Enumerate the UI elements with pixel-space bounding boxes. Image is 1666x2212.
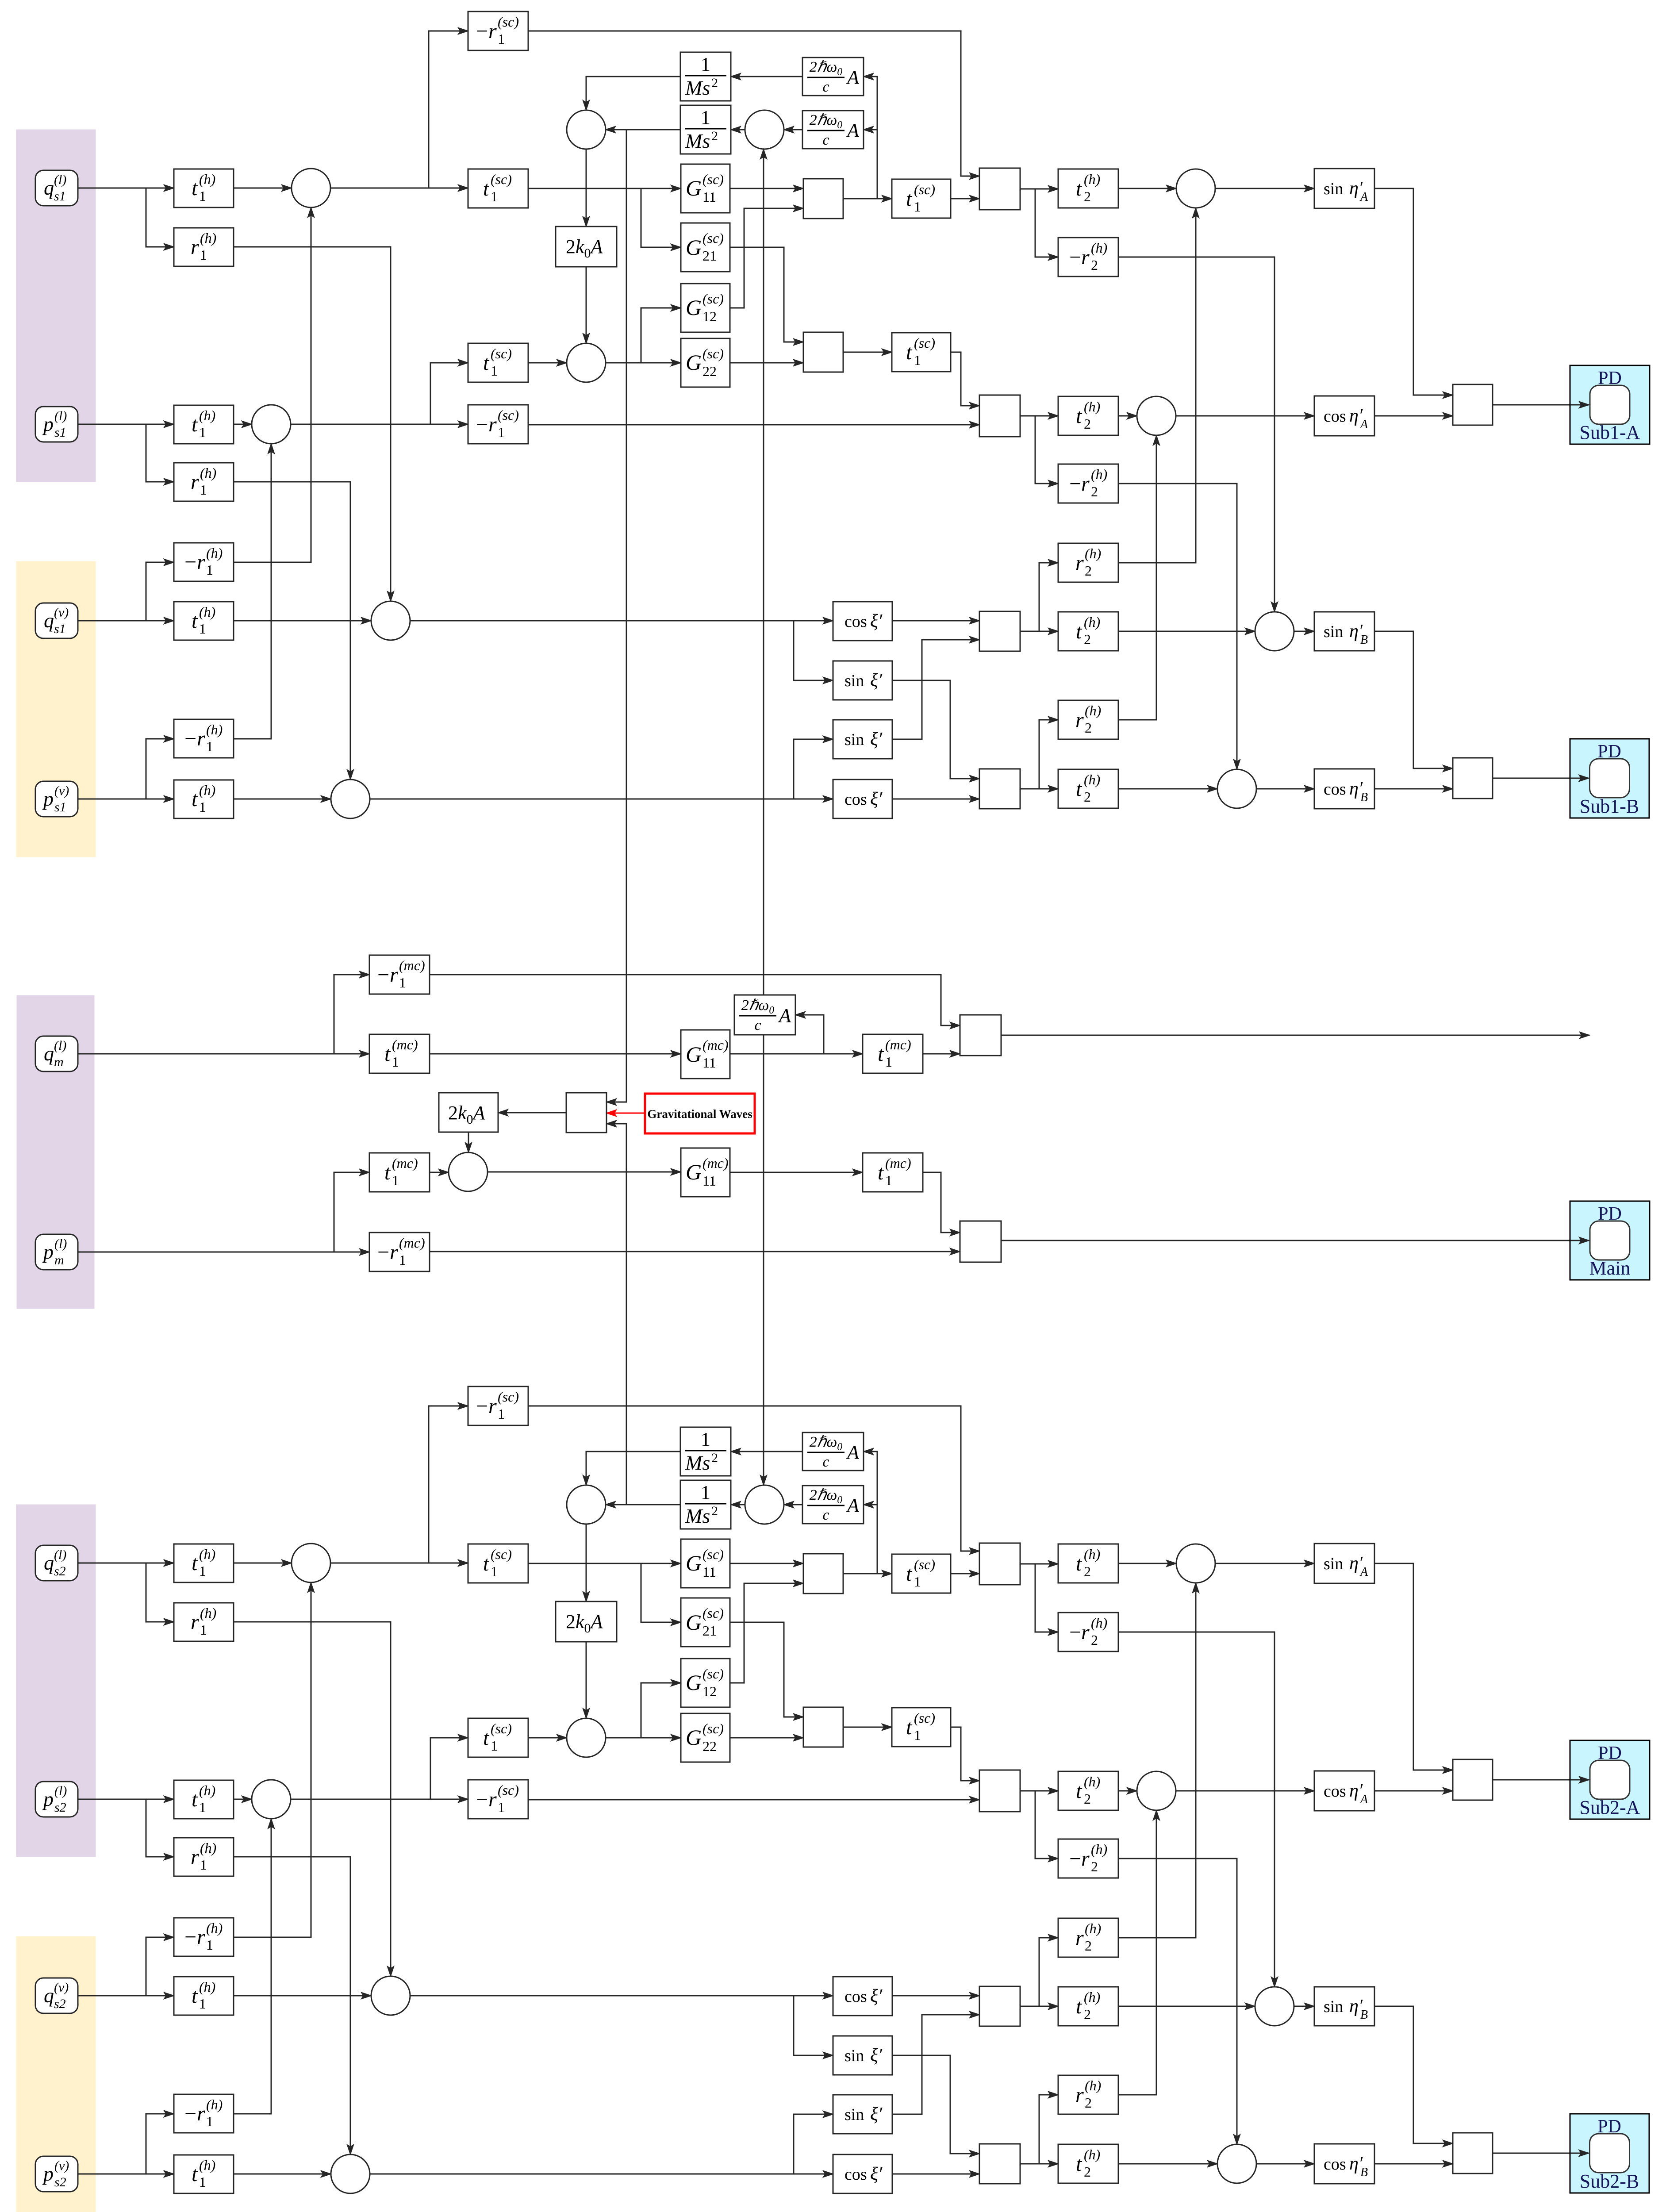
svg-text:(h): (h) (206, 2097, 223, 2112)
block -r1mc p (369, 1233, 430, 1271)
block -r1h s2 pv (174, 2094, 234, 2133)
block 2hw0cA s1 1 (802, 58, 864, 96)
wire s1 branch up to r2h r2 (1039, 720, 1058, 789)
wire s1 q(l) branch to r1h (146, 188, 174, 247)
block sin etaA s2 (1314, 1544, 1374, 1583)
wire s1 cos xi1 to Bsin sq (892, 620, 979, 622)
svg-text:2: 2 (1091, 1632, 1098, 1648)
wire s2 sin xi1 down to Bcos sq (892, 2055, 979, 2154)
svg-text:A: A (846, 66, 860, 88)
wire s1 q(v) input to t1h (78, 620, 174, 622)
svg-text:r: r (488, 413, 497, 436)
svg-text:t: t (483, 1726, 490, 1750)
svg-text:(sc): (sc) (702, 171, 724, 187)
sum s1 cosB (1217, 769, 1256, 808)
svg-text:B: B (1360, 791, 1368, 804)
svg-text:1: 1 (498, 1799, 505, 1815)
svg-text:(v): (v) (54, 1980, 69, 1995)
photodetector PD Sub2-A (1570, 1740, 1650, 1819)
wire G11mc to t1mc stage2 (730, 1053, 863, 1055)
sum s1 qv (371, 601, 410, 640)
svg-text:A: A (846, 1441, 860, 1463)
input p_s1^(v) (35, 781, 78, 817)
svg-text:t: t (906, 187, 913, 211)
svg-text:t: t (192, 2162, 198, 2186)
wire s1 p(v) input to t1h (78, 799, 174, 800)
svg-text:m: m (54, 1253, 64, 1267)
block -r2h s2 r2 (1058, 1839, 1118, 1878)
wire s1 sum sinA to box (1215, 188, 1314, 189)
wire s1 q(l) input to t1h (78, 188, 174, 189)
svg-text:Ms: Ms (685, 130, 710, 152)
wire s1 branch to G21 (641, 188, 681, 247)
wire s2 cosA to final A (1374, 1790, 1453, 1792)
svg-text:−: − (377, 963, 389, 987)
wire tap up to 2hw0cA mid (795, 1015, 824, 1054)
svg-text:G: G (686, 1160, 702, 1184)
svg-text:1: 1 (199, 1563, 206, 1579)
svg-text:(mc): (mc) (399, 957, 425, 973)
block -r2h s1 r2 (1058, 464, 1118, 503)
wire s2 branch up to -r1sc top (429, 1406, 468, 1563)
svg-text:2: 2 (711, 76, 718, 90)
wire s1 sum cosB to box (1256, 788, 1314, 790)
block 2hw0cA s2 2 (802, 1486, 864, 1524)
block r2h s1 r2 (1058, 700, 1118, 739)
svg-text:1: 1 (392, 1054, 399, 1070)
band vacuum inputs s2(v) (16, 1936, 96, 2212)
input p_s2^(v) (35, 2156, 78, 2192)
svg-text:(h): (h) (1091, 466, 1107, 482)
sum s2 mid1 (567, 1485, 606, 1524)
wire s1 r1h p down to pv sum (234, 482, 350, 780)
svg-text:t: t (1076, 1552, 1083, 1575)
wire t1mc to G11mc (430, 1053, 681, 1055)
svg-text:p: p (42, 1788, 54, 1810)
svg-text:t: t (192, 1551, 198, 1575)
svg-text:(h): (h) (1085, 703, 1101, 718)
svg-text:r: r (1081, 472, 1090, 495)
block t2h s1 B2 (1058, 769, 1118, 808)
wire s1 -r2h r1 down to sum sinB (1118, 257, 1274, 612)
block r1h s2 p (174, 1838, 234, 1876)
svg-text:r: r (191, 235, 199, 259)
wire s1 sinA down to final A (1374, 188, 1453, 395)
svg-text:A: A (1359, 1565, 1368, 1579)
sum main p (449, 1152, 488, 1191)
svg-text:G: G (686, 176, 702, 200)
svg-text:(h): (h) (1084, 399, 1100, 415)
svg-text:Sub1-B: Sub1-B (1580, 795, 1639, 817)
svg-text:cos: cos (1324, 1782, 1346, 1801)
svg-text:r: r (1075, 708, 1084, 732)
wire s2 right sum to 1/Ms2 2 (731, 1504, 745, 1505)
svg-text:p: p (42, 413, 54, 435)
svg-text:2: 2 (1085, 2095, 1092, 2111)
sum s1 sinA (1176, 169, 1215, 208)
svg-text:1: 1 (701, 54, 710, 75)
wire s1 sq2 r2 to t2h A2 (1020, 415, 1058, 417)
svg-text:(h): (h) (200, 1840, 216, 1856)
svg-text:G: G (686, 1042, 702, 1067)
photodetector PD Sub2-B (1570, 2114, 1649, 2193)
wire s1 sum cosA to box (1176, 415, 1314, 417)
svg-text:t: t (1076, 777, 1083, 801)
square stage2 s2 B1 (979, 1986, 1020, 2026)
wire s2 G21 down to comb2 (730, 1622, 803, 1717)
wire s2 G22 to comb2 (730, 1737, 803, 1739)
svg-text:1: 1 (701, 1482, 710, 1503)
wire s2 qv sum to cos xi1 (410, 1995, 833, 1997)
block t1h s1 qv (174, 602, 234, 640)
svg-text:cos: cos (845, 612, 867, 631)
block -r1sc bot s2 (468, 1780, 528, 1819)
block G21sc s1 (681, 223, 730, 272)
square comb2 s2 (803, 1707, 843, 1747)
wire s1 t1h q out to sum (234, 188, 292, 189)
wire s2 t1sc2 r2 down to sq2 row2 (951, 1727, 979, 1781)
svg-text:(h): (h) (199, 171, 215, 187)
wire s2 p(v) input to t1h (78, 2174, 174, 2175)
svg-text:−: − (1069, 472, 1081, 495)
block t2h s2 A1 (1058, 1544, 1118, 1583)
svg-text:r: r (191, 1845, 199, 1869)
svg-text:sin: sin (845, 730, 864, 749)
svg-text:s1: s1 (54, 800, 66, 814)
svg-text:−: − (1069, 246, 1081, 269)
wire s2 Bcos sq to t2h B2 (1020, 2163, 1058, 2165)
wire s2 comb2 out to t1sc stage2 row2 (843, 1727, 892, 1728)
band vacuum inputs s1(v) (16, 561, 96, 857)
svg-text:sin: sin (1324, 622, 1343, 641)
svg-text:11: 11 (702, 1173, 716, 1189)
wire s2 r2h r2 up to sum cosA (1118, 1810, 1156, 2095)
svg-text:c: c (822, 132, 829, 148)
block t2h s1 A1 (1058, 169, 1118, 208)
svg-text:c: c (822, 1454, 829, 1470)
label gravitational waves (645, 1094, 755, 1133)
svg-text:A: A (1359, 190, 1368, 204)
svg-text:cos: cos (845, 790, 867, 809)
wire s2 p(l) branch to r1h (146, 1799, 174, 1857)
wire s1 p(l) branch to r1h (146, 424, 174, 482)
svg-text:(h): (h) (206, 545, 223, 561)
square final s1 B (1453, 758, 1493, 799)
svg-text:21: 21 (702, 248, 717, 264)
sum s2 sinB (1255, 1987, 1294, 2026)
svg-text:1: 1 (885, 1054, 892, 1070)
block G22sc s2 (681, 1713, 730, 1762)
svg-text:G: G (686, 1610, 702, 1635)
wire s2 final B to PD (1493, 2153, 1571, 2154)
svg-text:2: 2 (1084, 416, 1091, 432)
wire s2 p sum out to -r1sc (291, 1799, 468, 1800)
svg-text:1: 1 (206, 2113, 213, 2129)
svg-text:ξ′: ξ′ (870, 2164, 883, 2184)
wire s1 final B to PD (1493, 778, 1571, 779)
wire s2 q(v) input to t1h (78, 1995, 174, 1997)
wire s1 t2h B1 to sum sinB (1118, 631, 1255, 632)
wire s2 1/Ms2 2 to mid sum (606, 1504, 680, 1505)
block -r2h s2 r1 (1058, 1613, 1118, 1651)
wire s1 G11 to comb1 (730, 188, 803, 189)
svg-text:r: r (1075, 1926, 1084, 1950)
svg-text:Sub2-B: Sub2-B (1580, 2170, 1639, 2192)
svg-text:t: t (878, 1042, 884, 1066)
input q_s2^(v) (35, 1978, 78, 2013)
block G21sc s2 (681, 1598, 730, 1647)
svg-text:ξ′: ξ′ (870, 2045, 883, 2066)
wire s2 tap up to 2hw0cA1 (864, 1452, 877, 1574)
wire s2 branch down to -r2h r2 (1035, 1791, 1058, 1859)
sum s1 right (745, 110, 784, 149)
block G12sc s1 (681, 284, 730, 332)
svg-text:−: − (476, 19, 488, 43)
wire s2 q(l) input to t1h (78, 1563, 174, 1564)
svg-text:1: 1 (206, 738, 213, 754)
block 2k0A s2 (556, 1601, 617, 1642)
svg-text:cos: cos (1324, 780, 1346, 799)
svg-text:1: 1 (491, 1563, 498, 1579)
svg-text:(h): (h) (1084, 1989, 1100, 2005)
block cosxi s2 2 (833, 2154, 892, 2193)
svg-text:1: 1 (199, 1996, 206, 2012)
wire s2 -r1sc top long to stage2 square (528, 1406, 979, 1551)
wire s1 r2h r1 up to sum sinA (1118, 208, 1196, 563)
svg-text:A: A (778, 1005, 791, 1026)
block t2h s1 B1 (1058, 612, 1118, 651)
square final s1 A (1453, 384, 1493, 425)
band laser input main (17, 995, 94, 1309)
svg-text:(h): (h) (1085, 1920, 1101, 1936)
svg-text:1: 1 (498, 424, 505, 440)
wire s2 -r1sc bot to sq2 row2 (528, 1799, 979, 1801)
svg-text:(h): (h) (1085, 545, 1101, 561)
svg-text:2: 2 (711, 1504, 718, 1518)
sum s1 mid1 (567, 110, 606, 149)
svg-text:G: G (686, 235, 702, 260)
svg-text:(sc): (sc) (702, 291, 724, 307)
square stage2 s1 B2 (979, 769, 1020, 809)
svg-text:t: t (1076, 620, 1083, 643)
wire s1 -r1sc top long to stage2 square (528, 31, 979, 176)
svg-text:(h): (h) (1084, 171, 1100, 187)
svg-text:s1: s1 (54, 189, 66, 204)
svg-text:t: t (1076, 177, 1083, 200)
wire s1 r1h q down to qv sum (234, 247, 391, 601)
svg-text:12: 12 (702, 1683, 717, 1699)
wire s2 r1h p down to pv sum (234, 1857, 350, 2154)
wire vline B up to top right sum (763, 149, 764, 995)
block G12sc s2 (681, 1659, 730, 1707)
svg-text:G: G (686, 1725, 702, 1750)
svg-text:Sub2-A: Sub2-A (1580, 1797, 1640, 1818)
wire s1 right sum to 1/Ms2 2 (731, 129, 745, 131)
wire s1 t1sc2 r1 to sq2 (951, 198, 979, 200)
wire s1 branch down to -r2h r1 (1035, 189, 1058, 257)
svg-text:t: t (483, 351, 490, 375)
wire s1 branch up to -r1sc top (429, 31, 468, 188)
svg-text:2: 2 (711, 1451, 718, 1465)
svg-text:r: r (197, 1925, 205, 1949)
svg-text:(sc): (sc) (914, 335, 935, 351)
svg-text:Sub1-A: Sub1-A (1580, 422, 1640, 443)
svg-text:B: B (1360, 633, 1368, 647)
wire s1 G21 down to comb2 (730, 247, 803, 342)
wire s2 branch up to r2h r1 (1039, 1938, 1058, 2006)
block 1/Ms2 s1 1 (680, 52, 731, 101)
svg-text:t: t (1076, 404, 1083, 428)
sum s1 q (292, 169, 330, 207)
wire s2 cosB to final B (1374, 2163, 1453, 2165)
wire s1 cos xi2 to Bcos sq (892, 799, 979, 800)
svg-text:1: 1 (914, 352, 921, 368)
wire s2 sum sinB to box (1294, 2006, 1314, 2007)
wire red gravitational waves (607, 1113, 645, 1114)
svg-text:m: m (54, 1055, 64, 1069)
svg-text:2: 2 (1091, 484, 1098, 499)
svg-text:2: 2 (1091, 257, 1098, 273)
svg-text:(sc): (sc) (498, 1389, 519, 1405)
svg-text:sin: sin (845, 672, 864, 690)
svg-text:(h): (h) (199, 782, 215, 798)
wire s1 p(v) branch to -r1h (146, 739, 174, 799)
svg-text:(sc): (sc) (702, 1720, 724, 1736)
svg-text:1: 1 (199, 2174, 206, 2190)
block 1/Ms2 s1 2 (680, 105, 731, 154)
block t2h s2 A2 (1058, 1771, 1118, 1810)
svg-text:22: 22 (702, 363, 717, 379)
sum s2 pv (331, 2154, 370, 2193)
svg-text:Ms: Ms (685, 77, 710, 99)
sum s1 sinB (1255, 612, 1294, 651)
wire s1 2k0A down to sum2 (586, 267, 587, 343)
svg-text:−: − (476, 413, 488, 436)
block 2hw0cA main (734, 995, 795, 1035)
block 1/Ms2 s2 1 (680, 1427, 731, 1476)
block r1h s1 q (174, 228, 234, 266)
block r1h s1 p (174, 463, 234, 501)
wire s1 sq2 r1 to t2h A1 (1020, 188, 1058, 190)
block cos etaB s1 (1314, 769, 1374, 809)
wire s2 branch down to -r2h r1 (1035, 1564, 1058, 1632)
svg-text:1: 1 (199, 799, 206, 815)
wire s2 -r1h qv up to q sum (234, 1582, 311, 1937)
svg-text:22: 22 (702, 1738, 717, 1754)
block t1h s2 q (174, 1544, 234, 1582)
block sinxi s1 1 (833, 661, 892, 700)
svg-text:1: 1 (491, 1738, 498, 1754)
svg-text:(l): (l) (54, 409, 67, 423)
block -r1h s1 pv (174, 719, 234, 758)
wire s2 q(l) branch to r1h (146, 1563, 174, 1622)
svg-text:Ms: Ms (685, 1505, 710, 1527)
svg-text:s2: s2 (54, 1564, 66, 1578)
svg-text:s2: s2 (54, 1800, 66, 1815)
input q_s2^(l) (35, 1545, 78, 1581)
block sin etaB s1 (1314, 612, 1374, 651)
wire s2 G11 to comb1 (730, 1563, 803, 1564)
block t1sc stage2 s1 r2 (892, 333, 951, 372)
band laser inputs s1(l) (16, 130, 96, 482)
wire sum to G11mc2 (488, 1171, 681, 1173)
svg-text:(sc): (sc) (702, 1546, 724, 1562)
block G11sc s2 (681, 1539, 730, 1588)
svg-text:cos: cos (1324, 2155, 1346, 2174)
square stage2 s2 B2 (979, 2144, 1020, 2184)
wire s2 2hw0cA2 to right sum (784, 1504, 802, 1505)
block t1h s2 qv (174, 1977, 234, 2015)
block 1/Ms2 s2 2 (680, 1480, 731, 1529)
svg-text:(h): (h) (1084, 1546, 1100, 1562)
block sinxi s1 2 (833, 720, 892, 759)
svg-text:(h): (h) (1091, 1841, 1107, 1857)
block t1h s2 p (174, 1780, 234, 1819)
svg-text:q: q (44, 1551, 54, 1574)
square comb2 s1 (803, 332, 843, 372)
block 2hw0cA s2 1 (802, 1432, 864, 1471)
svg-text:(h): (h) (200, 230, 216, 246)
svg-text:t: t (192, 787, 198, 811)
svg-text:1: 1 (885, 1172, 892, 1188)
svg-text:(h): (h) (206, 722, 223, 737)
svg-text:12: 12 (702, 308, 717, 324)
svg-text:(v): (v) (54, 2158, 69, 2173)
svg-text:r: r (488, 19, 497, 43)
block cosxi s1 1 (833, 602, 892, 641)
svg-text:t: t (483, 177, 490, 200)
svg-text:t: t (192, 1984, 198, 2008)
svg-text:1: 1 (199, 621, 206, 637)
svg-text:t: t (192, 177, 198, 200)
wire s1 q sum out to t1sc (330, 188, 468, 189)
svg-text:ξ′: ξ′ (870, 729, 883, 749)
square stage2 s2 A1 (979, 1543, 1020, 1585)
sum s2 qv (371, 1976, 410, 2015)
svg-text:t: t (878, 1161, 884, 1184)
svg-text:1: 1 (498, 31, 505, 47)
svg-text:r: r (191, 470, 199, 494)
wire comb m2 to PD Main (1001, 1240, 1571, 1241)
block t1mc q (369, 1034, 430, 1073)
svg-text:1: 1 (701, 1429, 710, 1450)
block -r1h s2 qv (174, 1918, 234, 1956)
svg-text:(h): (h) (1084, 614, 1100, 630)
svg-text:q: q (44, 1042, 54, 1065)
block -r1mc q (369, 955, 430, 994)
wire s1 qv sum to cos xi1 (410, 620, 833, 622)
svg-text:(sc): (sc) (491, 1546, 512, 1562)
svg-text:c: c (754, 1017, 761, 1033)
wire vline A from top section to GW square (607, 130, 626, 1102)
wire s2 1/Ms2 1 down to sum (586, 1452, 680, 1485)
svg-text:(mc): (mc) (392, 1155, 418, 1171)
block sinxi s2 1 (833, 2036, 892, 2075)
block cos etaA s2 (1314, 1771, 1374, 1811)
svg-text:t: t (906, 1716, 913, 1739)
svg-text:1: 1 (498, 1406, 505, 1422)
svg-text:A: A (1359, 418, 1368, 431)
svg-text:s2: s2 (54, 2175, 66, 2189)
svg-text:r: r (1075, 2083, 1084, 2107)
wire s2 comb1 out to t1sc stage2 (843, 1573, 892, 1575)
wire t1mc stage2 to comb m1 (923, 1053, 960, 1055)
svg-text:(h): (h) (1085, 2078, 1101, 2093)
svg-text:(sc): (sc) (491, 346, 512, 361)
svg-text:q: q (44, 1984, 54, 2007)
svg-text:p: p (42, 787, 54, 810)
sum s1 p (252, 405, 291, 444)
